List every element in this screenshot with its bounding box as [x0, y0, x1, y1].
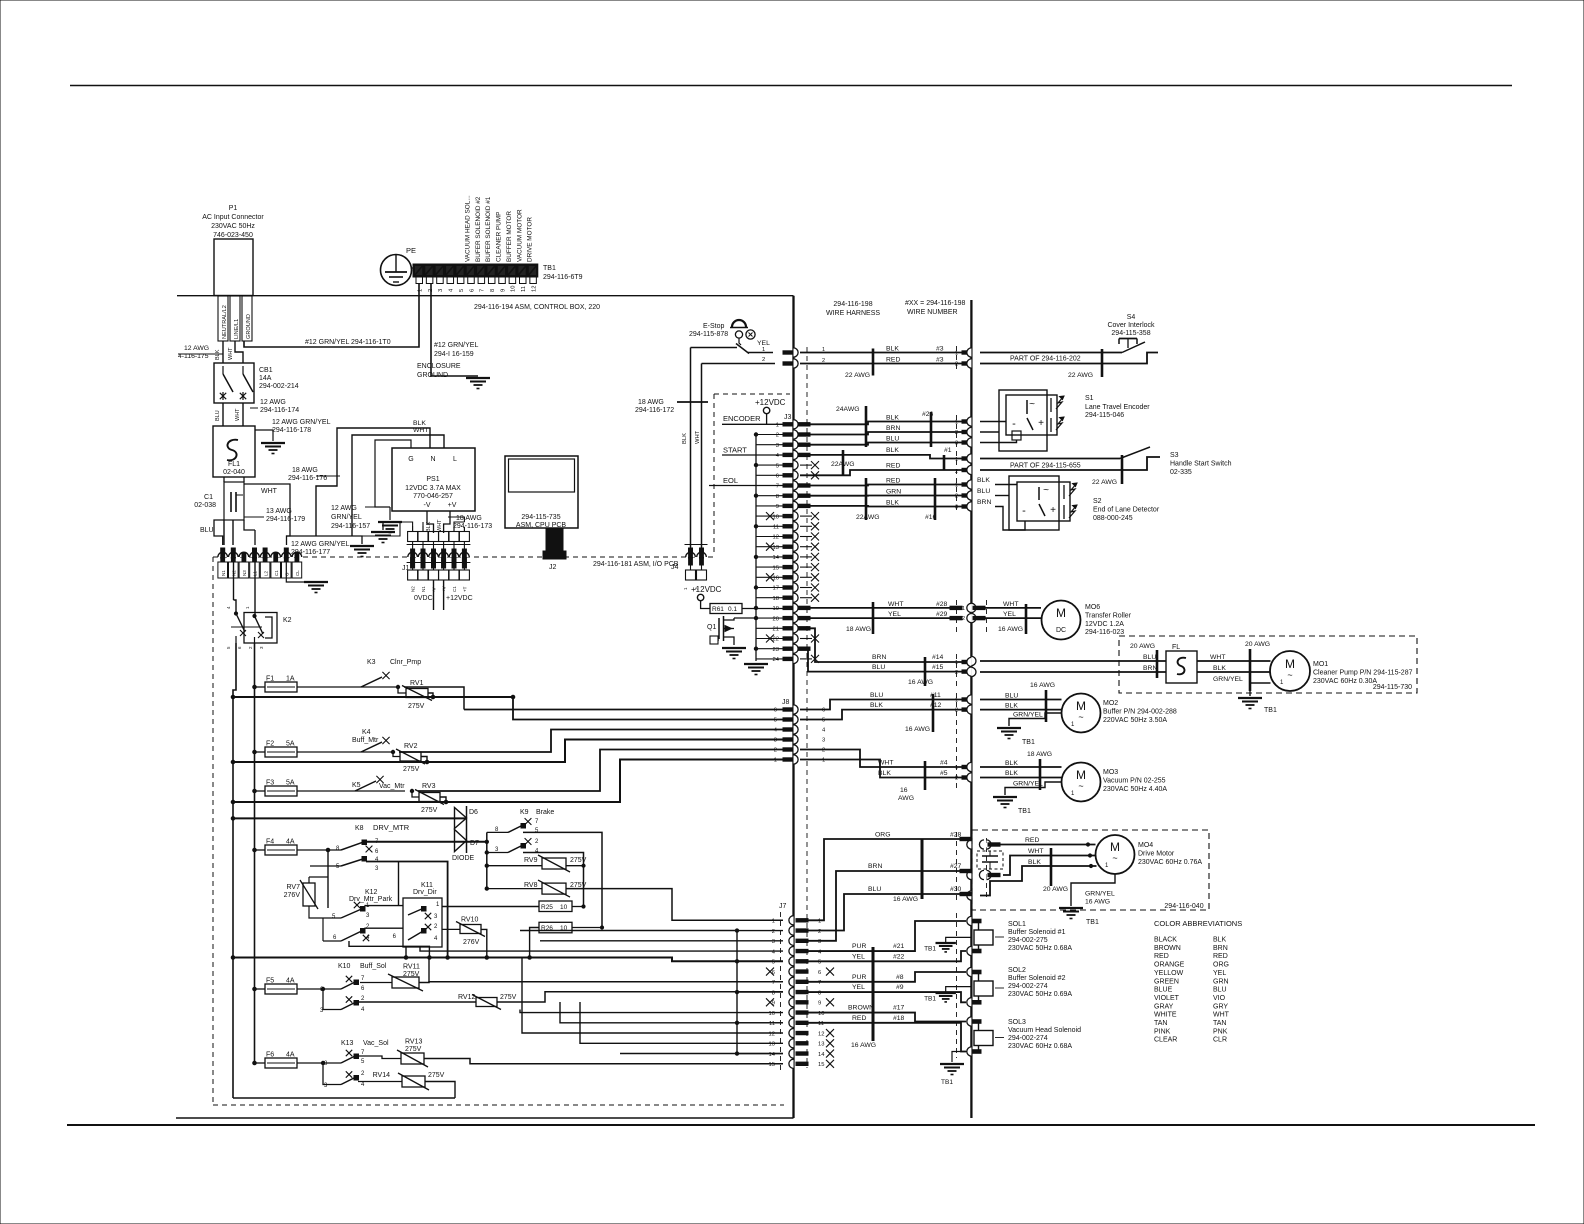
- svg-text:1: 1: [822, 758, 825, 764]
- svg-text:K4: K4: [362, 729, 371, 736]
- wire MO1 ground TB1: [1249, 683, 1251, 696]
- svg-text:Buffer Solenoid #1: Buffer Solenoid #1: [1008, 929, 1066, 936]
- page top rule: [70, 85, 1512, 87]
- wire J3 common vertical: [755, 435, 757, 660]
- svg-text:294-116-194 ASM, CONTROL BOX,: 294-116-194 ASM, CONTROL BOX, 220: [474, 304, 600, 311]
- svg-text:WHT: WHT: [261, 488, 278, 495]
- ground from connector G: [286, 557, 308, 582]
- wire RV13 out to J7 pin15: [424, 1059, 783, 1064]
- svg-text:K8: K8: [355, 825, 364, 832]
- svg-text:FL: FL: [1172, 644, 1180, 651]
- svg-text:BLK: BLK: [426, 521, 432, 532]
- wire E-stop verticals BLK WHT: [690, 348, 692, 549]
- svg-text:9: 9: [500, 289, 506, 292]
- svg-text:~: ~: [1078, 781, 1083, 791]
- svg-text:+12VDC: +12VDC: [755, 398, 786, 407]
- svg-text:YEL: YEL: [757, 340, 770, 347]
- svg-text:294-002-274: 294-002-274: [1008, 1035, 1048, 1042]
- svg-text:5: 5: [822, 718, 825, 724]
- svg-text:GRN/YEL: GRN/YEL: [331, 514, 362, 521]
- svg-text:BLK: BLK: [886, 415, 899, 422]
- wire MO4 WHT: [1003, 856, 1096, 876]
- svg-text:RED: RED: [1154, 953, 1169, 960]
- svg-text:Brake: Brake: [536, 809, 554, 816]
- svg-text:TB1: TB1: [924, 946, 936, 953]
- page bottom rule: [67, 1124, 1535, 1126]
- wire return row 762 to J8 pin3: [231, 760, 235, 764]
- wire J7 pin2 feeder: [520, 930, 737, 932]
- svg-text:DIODE: DIODE: [452, 855, 475, 862]
- svg-text:BUFFER MOTOR: BUFFER MOTOR: [506, 211, 513, 262]
- svg-text:BLK: BLK: [1213, 937, 1227, 944]
- wire K11 pin1 to R25: [436, 898, 442, 907]
- svg-text:ENCODER: ENCODER: [723, 414, 761, 423]
- P1 terminal NEUTRAL/L2: [218, 296, 228, 341]
- wire RV12 out to J7 pin8: [497, 992, 783, 1002]
- detector S2: [1009, 476, 1059, 530]
- wire RV9 out: [566, 863, 584, 865]
- svg-text:K12: K12: [365, 889, 378, 896]
- harness dashed line right of left bus: [806, 347, 808, 1068]
- svg-text:275V: 275V: [408, 703, 425, 710]
- ground TB1 SOL2: [946, 987, 972, 993]
- wire RV3 out to return: [440, 797, 446, 802]
- wire EOL RED/GRN/BLK #16: [800, 485, 962, 486]
- svg-text:WHT: WHT: [1028, 848, 1043, 855]
- svg-text:1: 1: [772, 919, 775, 925]
- wire MO6 WHT/YEL #28 #29: [800, 607, 950, 609]
- svg-text:#3: #3: [936, 357, 944, 364]
- svg-text:MO3: MO3: [1103, 769, 1118, 776]
- wire MO1 BRN/BLU #14 #15: [800, 628, 962, 662]
- wire PS1 G ground: [375, 440, 411, 507]
- svg-text:BLK: BLK: [886, 346, 899, 353]
- svg-text:C1: C1: [204, 494, 213, 501]
- wire J8 pin5 row: [511, 695, 515, 699]
- wire K8 feed vertical: [327, 850, 329, 908]
- svg-text:J8: J8: [782, 699, 790, 706]
- svg-text:5: 5: [459, 289, 465, 292]
- svg-text:R61: R61: [712, 606, 724, 613]
- drive motor dashed box: [972, 830, 1209, 910]
- svg-text:BLU: BLU: [977, 488, 990, 495]
- svg-text:2: 2: [776, 433, 779, 439]
- svg-text:+T: +T: [462, 586, 467, 592]
- svg-text:18 AWG: 18 AWG: [1027, 751, 1052, 758]
- svg-text:K11: K11: [421, 882, 433, 889]
- svg-text:Clnr_Pmp: Clnr_Pmp: [390, 659, 421, 666]
- svg-text:13: 13: [818, 1042, 824, 1048]
- wire J7 pin4 feeder: [420, 947, 783, 951]
- svg-text:20: 20: [773, 616, 779, 622]
- svg-text:22 AWG: 22 AWG: [1068, 372, 1093, 379]
- svg-text:G: G: [285, 572, 290, 576]
- svg-text:Drv_Mtr_Park: Drv_Mtr_Park: [349, 896, 393, 903]
- svg-text:294-115-735: 294-115-735: [521, 514, 560, 521]
- wire EOL to J3-7: [709, 485, 783, 487]
- svg-text:3: 3: [772, 939, 775, 945]
- svg-text:C1: C1: [274, 570, 279, 576]
- svg-text:9: 9: [818, 1001, 821, 1007]
- svg-text:~: ~: [1078, 712, 1083, 722]
- filter FL1: [213, 426, 255, 477]
- svg-text:E-Stop: E-Stop: [703, 323, 725, 330]
- svg-text:2: 2: [822, 358, 825, 364]
- svg-text:276V: 276V: [284, 892, 301, 899]
- svg-text:2: 2: [955, 469, 958, 475]
- rail fuse feed from K2: [254, 643, 256, 1063]
- wire J1 BLK 0VDC down: [433, 580, 435, 610]
- svg-text:S2: S2: [1093, 498, 1102, 505]
- svg-text:18 AWG: 18 AWG: [456, 515, 482, 522]
- svg-text:PS1: PS1: [426, 476, 439, 483]
- svg-text:15: 15: [773, 565, 779, 571]
- svg-text:1: 1: [955, 420, 958, 426]
- solenoid SOL3: [967, 1017, 972, 1026]
- connector pair MO6: [950, 606, 962, 609]
- svg-text:15: 15: [769, 1062, 775, 1068]
- svg-text:0.1: 0.1: [728, 606, 737, 613]
- svg-text:13 AWG: 13 AWG: [266, 508, 292, 515]
- svg-text:TAN: TAN: [1213, 1020, 1226, 1027]
- wire K4 node to J8 pin4: [399, 730, 783, 753]
- wire MO4 ORG #28: [808, 839, 962, 920]
- svg-text:FL1: FL1: [228, 461, 240, 468]
- svg-text:230VAC 50Hz 0.69A: 230VAC 50Hz 0.69A: [1008, 991, 1072, 998]
- svg-text:NEUTRAL/L2: NEUTRAL/L2: [222, 305, 228, 339]
- svg-text:5: 5: [776, 463, 779, 469]
- E-stop pins to bus: [783, 351, 793, 354]
- solenoid SOL2: [967, 967, 972, 976]
- svg-text:Drv_Dir: Drv_Dir: [413, 889, 437, 896]
- svg-text:770-046-257: 770-046-257: [413, 493, 453, 500]
- svg-text:TB1: TB1: [1264, 707, 1277, 714]
- I/O PCB dashed boundary top: [213, 556, 716, 558]
- svg-text:#28: #28: [936, 601, 948, 608]
- svg-text:TB1: TB1: [1018, 808, 1031, 815]
- svg-text:+: +: [1038, 418, 1044, 429]
- svg-text:BLACK: BLACK: [1154, 937, 1177, 944]
- svg-text:GRN/YEL: GRN/YEL: [1013, 712, 1043, 719]
- wire R26 right: [572, 927, 602, 929]
- svg-text:088-000-245: 088-000-245: [1093, 515, 1133, 522]
- svg-text:Vac_Sol: Vac_Sol: [363, 1040, 389, 1047]
- svg-text:RV9: RV9: [524, 857, 538, 864]
- dashed connector line right bus left side: [956, 346, 958, 372]
- svg-text:16 AWG: 16 AWG: [893, 896, 918, 903]
- S2 opto arrows: [1063, 485, 1065, 499]
- relay K2: [244, 613, 277, 644]
- svg-text:3: 3: [776, 443, 779, 449]
- circuit breaker CB1: [214, 363, 254, 403]
- svg-text:1: 1: [818, 919, 821, 925]
- svg-text:WHT: WHT: [1210, 654, 1225, 661]
- svg-text:1: 1: [955, 765, 958, 771]
- svg-text:~: ~: [1043, 485, 1049, 496]
- svg-text:BLU: BLU: [868, 886, 881, 893]
- wire K9 lower out: [523, 853, 584, 907]
- svg-text:22AWG: 22AWG: [856, 514, 880, 521]
- svg-text:K10: K10: [338, 963, 351, 970]
- wire +12VDC to J3 pin1: [766, 414, 768, 425]
- svg-text:6: 6: [822, 708, 825, 714]
- svg-text:6: 6: [776, 474, 779, 480]
- svg-text:BLU: BLU: [872, 664, 885, 671]
- svg-text:J1: J1: [402, 565, 410, 572]
- svg-text:R25: R25: [541, 904, 553, 911]
- wire RV1 out: [428, 693, 433, 697]
- svg-text:YEL: YEL: [852, 984, 865, 991]
- power supply PS1: [392, 448, 475, 511]
- svg-text:294-115-730: 294-115-730: [1373, 684, 1412, 691]
- svg-text:8: 8: [490, 289, 496, 292]
- wire CB1 to FL1: [222, 403, 224, 426]
- svg-text:#3: #3: [936, 346, 944, 353]
- svg-text:GROUND: GROUND: [246, 314, 252, 339]
- svg-text:10: 10: [769, 1011, 775, 1017]
- wire main bus row 957.5: [231, 956, 235, 960]
- svg-text:#8: #8: [896, 974, 904, 981]
- ground at Q1: [722, 647, 746, 649]
- wire J7 pin13 feeder: [580, 1002, 783, 1043]
- svg-text:GRN: GRN: [886, 489, 901, 496]
- svg-text:275V: 275V: [428, 1072, 445, 1079]
- svg-text:#17: #17: [893, 1005, 905, 1012]
- svg-text:2: 2: [822, 748, 825, 754]
- svg-text:WHT: WHT: [235, 408, 241, 421]
- wire MO4 BLU #30: [808, 894, 962, 931]
- PE protective earth symbol: [381, 255, 412, 286]
- motor MO2 wires: [980, 699, 1062, 701]
- svg-text:1: 1: [955, 483, 958, 489]
- svg-text:294-116-173: 294-116-173: [453, 523, 492, 530]
- svg-text:CLEANER PUMP: CLEANER PUMP: [496, 212, 503, 262]
- svg-text:3: 3: [818, 939, 821, 945]
- svg-text:294-115-358: 294-115-358: [1111, 330, 1150, 337]
- svg-text:YEL: YEL: [888, 611, 901, 618]
- svg-text:12: 12: [531, 286, 537, 292]
- enclosure ground symbol: [466, 377, 490, 379]
- svg-text:16 AWG: 16 AWG: [1085, 899, 1110, 906]
- wire TB1-1 ground jumper #12 GRN/YEL: [244, 284, 419, 347]
- ground symbol at CB1/FL1: [255, 430, 273, 441]
- svg-text:GREEN: GREEN: [1154, 978, 1179, 985]
- wire RV11 out to J7 pin7: [419, 981, 783, 984]
- resistor R26: [539, 922, 572, 933]
- svg-text:S3: S3: [1170, 452, 1179, 459]
- svg-text:S1: S1: [1085, 395, 1094, 402]
- svg-text:11: 11: [521, 286, 527, 292]
- svg-text:10: 10: [511, 286, 517, 292]
- motor MO6: [1042, 601, 1081, 640]
- svg-text:BROWN: BROWN: [1154, 945, 1181, 952]
- svg-text:GRN: GRN: [1213, 978, 1229, 985]
- svg-text:Cover Interlock: Cover Interlock: [1107, 322, 1155, 329]
- svg-text:3: 3: [955, 441, 958, 447]
- encoder S1: [999, 390, 1047, 451]
- wire MO4 RED: [1000, 844, 1096, 846]
- svg-text:WHT: WHT: [437, 519, 443, 532]
- svg-text:11: 11: [773, 525, 779, 531]
- svg-text:GRN/YEL: GRN/YEL: [1013, 781, 1043, 788]
- svg-text:YEL: YEL: [1003, 611, 1016, 618]
- svg-text:ORANGE: ORANGE: [1154, 962, 1185, 969]
- motor MO3: [1062, 763, 1101, 802]
- ground TB1 SOL1: [946, 937, 972, 943]
- svg-text:WHT: WHT: [695, 430, 701, 444]
- svg-text:Buffer Solenoid #2: Buffer Solenoid #2: [1008, 975, 1066, 982]
- wire bus right (harness): [970, 300, 972, 1118]
- svg-text:BLUE: BLUE: [1154, 987, 1173, 994]
- svg-text:TB1: TB1: [1022, 739, 1035, 746]
- motor MO2: [1062, 694, 1101, 733]
- motor MO1: [1270, 651, 1310, 691]
- wire K12 lower loop: [322, 918, 324, 941]
- svg-text:WHT: WHT: [888, 601, 903, 608]
- svg-text:6: 6: [818, 970, 821, 976]
- svg-text:2: 2: [955, 776, 958, 782]
- svg-text:Vacuum P/N 02-255: Vacuum P/N 02-255: [1103, 778, 1166, 785]
- svg-text:18 AWG: 18 AWG: [846, 626, 871, 633]
- svg-text:L: L: [453, 456, 457, 463]
- wire MO2 BLU/BLK #11 #12: [800, 700, 962, 710]
- svg-text:#15: #15: [932, 664, 944, 671]
- svg-text:2: 2: [955, 430, 958, 436]
- svg-text:294-002-274: 294-002-274: [1008, 983, 1048, 990]
- svg-text:12 AWG GRN/YEL: 12 AWG GRN/YEL: [291, 541, 350, 548]
- I/O PCB dashed boundary left: [213, 346, 987, 1105]
- svg-text:BLK: BLK: [413, 420, 426, 427]
- svg-text:20 AWG: 20 AWG: [1245, 641, 1270, 648]
- svg-text:294-116-178: 294-116-178: [272, 427, 311, 434]
- wire S4 row2: [980, 353, 1158, 364]
- wire PS1 -V +V down to J1: [427, 511, 434, 533]
- S1 opto arrows: [1050, 398, 1052, 412]
- connector J2: [546, 528, 563, 553]
- wire line into CB1: [235, 341, 243, 363]
- svg-text:1: 1: [955, 457, 958, 463]
- svg-text:#12 GRN/YEL: #12 GRN/YEL: [434, 342, 478, 349]
- svg-text:#11: #11: [930, 692, 941, 699]
- svg-text:+12VDC: +12VDC: [446, 595, 473, 602]
- svg-text:ORG: ORG: [875, 832, 890, 839]
- svg-text:SOL2: SOL2: [1008, 967, 1026, 974]
- wire J1 WHT +12VDC down: [443, 580, 445, 610]
- svg-text:275V: 275V: [421, 807, 438, 814]
- svg-text:18 AWG: 18 AWG: [292, 467, 318, 474]
- svg-text:BLK: BLK: [1028, 859, 1041, 866]
- svg-text:Vac_Mtr: Vac_Mtr: [379, 783, 405, 790]
- svg-text:J7: J7: [779, 903, 787, 910]
- svg-text:#29: #29: [936, 611, 948, 618]
- svg-text:DRV_MTR: DRV_MTR: [373, 823, 410, 832]
- svg-text:1: 1: [955, 698, 958, 704]
- svg-text:#XX = 294-116-198: #XX = 294-116-198: [905, 300, 965, 307]
- svg-text:RV2: RV2: [404, 743, 418, 750]
- resistor R61: [701, 601, 710, 609]
- svg-text:14A: 14A: [259, 375, 272, 382]
- svg-text:CLEAR: CLEAR: [1154, 1037, 1177, 1044]
- diode D6: [466, 806, 468, 853]
- svg-text:K3: K3: [367, 659, 376, 666]
- wire K8 upper out row 841.8: [364, 841, 487, 843]
- svg-text:WHITE: WHITE: [1154, 1012, 1177, 1019]
- wire encoder BLK/BRN/BLU #26: [800, 422, 962, 425]
- svg-text:-: -: [1012, 418, 1016, 430]
- svg-text:746-023-450: 746-023-450: [213, 232, 253, 239]
- svg-text:7: 7: [772, 980, 775, 986]
- motor MO2 ground TB1: [997, 727, 1021, 729]
- svg-text:294-115-046: 294-115-046: [1085, 412, 1124, 419]
- svg-text:24: 24: [773, 657, 780, 663]
- TB1 terminal screws: [416, 277, 423, 284]
- svg-text:12: 12: [769, 1031, 775, 1037]
- svg-text:ORG: ORG: [1213, 962, 1229, 969]
- svg-text:D6: D6: [469, 809, 478, 816]
- svg-text:1: 1: [822, 347, 825, 353]
- svg-text:BLU: BLU: [1005, 693, 1018, 700]
- wire J7 pin3 feeder: [540, 940, 783, 942]
- wire K11 bottom to bus: [405, 947, 407, 958]
- wire J7 pin14 feeder: [620, 1053, 783, 1055]
- svg-text:RED: RED: [886, 357, 900, 364]
- wire START to J3-4: [722, 454, 783, 456]
- svg-text:RED: RED: [886, 478, 900, 485]
- svg-text:Q1: Q1: [707, 624, 716, 631]
- wire R61 row to J3-19: [754, 606, 757, 609]
- svg-text:+12VDC: +12VDC: [691, 585, 722, 594]
- svg-text:02-335: 02-335: [1170, 469, 1192, 476]
- svg-text:K5: K5: [352, 782, 361, 789]
- svg-text:2: 2: [955, 708, 958, 714]
- svg-text:BLU: BLU: [1213, 987, 1227, 994]
- svg-text:275V: 275V: [405, 1046, 422, 1053]
- svg-text:#22: #22: [893, 954, 905, 961]
- svg-text:BLU: BLU: [886, 436, 899, 443]
- svg-text:BLU: BLU: [870, 692, 883, 699]
- svg-text:~: ~: [1287, 670, 1292, 680]
- wire K3 node to J8 feeder: [404, 687, 464, 710]
- svg-text:BRN: BRN: [872, 654, 886, 661]
- wire R26 left to bus: [530, 928, 539, 958]
- svg-text:BLK: BLK: [215, 349, 221, 360]
- svg-text:#21: #21: [893, 943, 905, 950]
- svg-text:C1: C1: [452, 586, 457, 592]
- svg-text:J4: J4: [671, 564, 679, 571]
- wire J1 pins up: [412, 526, 414, 532]
- svg-text:12VDC 1.2A: 12VDC 1.2A: [1085, 621, 1124, 628]
- svg-text:GRN/YEL: GRN/YEL: [1085, 891, 1115, 898]
- svg-text:BLU: BLU: [200, 527, 214, 534]
- svg-text:EOL: EOL: [723, 476, 738, 485]
- svg-text:BRN: BRN: [1213, 945, 1228, 952]
- svg-text:02-038: 02-038: [194, 502, 216, 509]
- svg-text:2: 2: [762, 357, 765, 363]
- svg-text:02-040: 02-040: [223, 469, 245, 476]
- svg-text:L2: L2: [263, 570, 268, 576]
- svg-text:294-116-198: 294-116-198: [833, 301, 872, 308]
- svg-text:RV11: RV11: [403, 964, 420, 971]
- svg-text:2: 2: [955, 670, 958, 676]
- svg-text:TB1: TB1: [1086, 919, 1099, 926]
- wire MO4 BLK: [980, 866, 1097, 896]
- svg-text:DRIVE MOTOR: DRIVE MOTOR: [527, 217, 534, 262]
- svg-text:230VAC 60Hz 0.76A: 230VAC 60Hz 0.76A: [1138, 859, 1202, 866]
- svg-text:1: 1: [776, 423, 779, 429]
- svg-text:294-115-878: 294-115-878: [689, 331, 728, 338]
- svg-text:2: 2: [962, 616, 965, 622]
- svg-text:M: M: [1056, 606, 1066, 620]
